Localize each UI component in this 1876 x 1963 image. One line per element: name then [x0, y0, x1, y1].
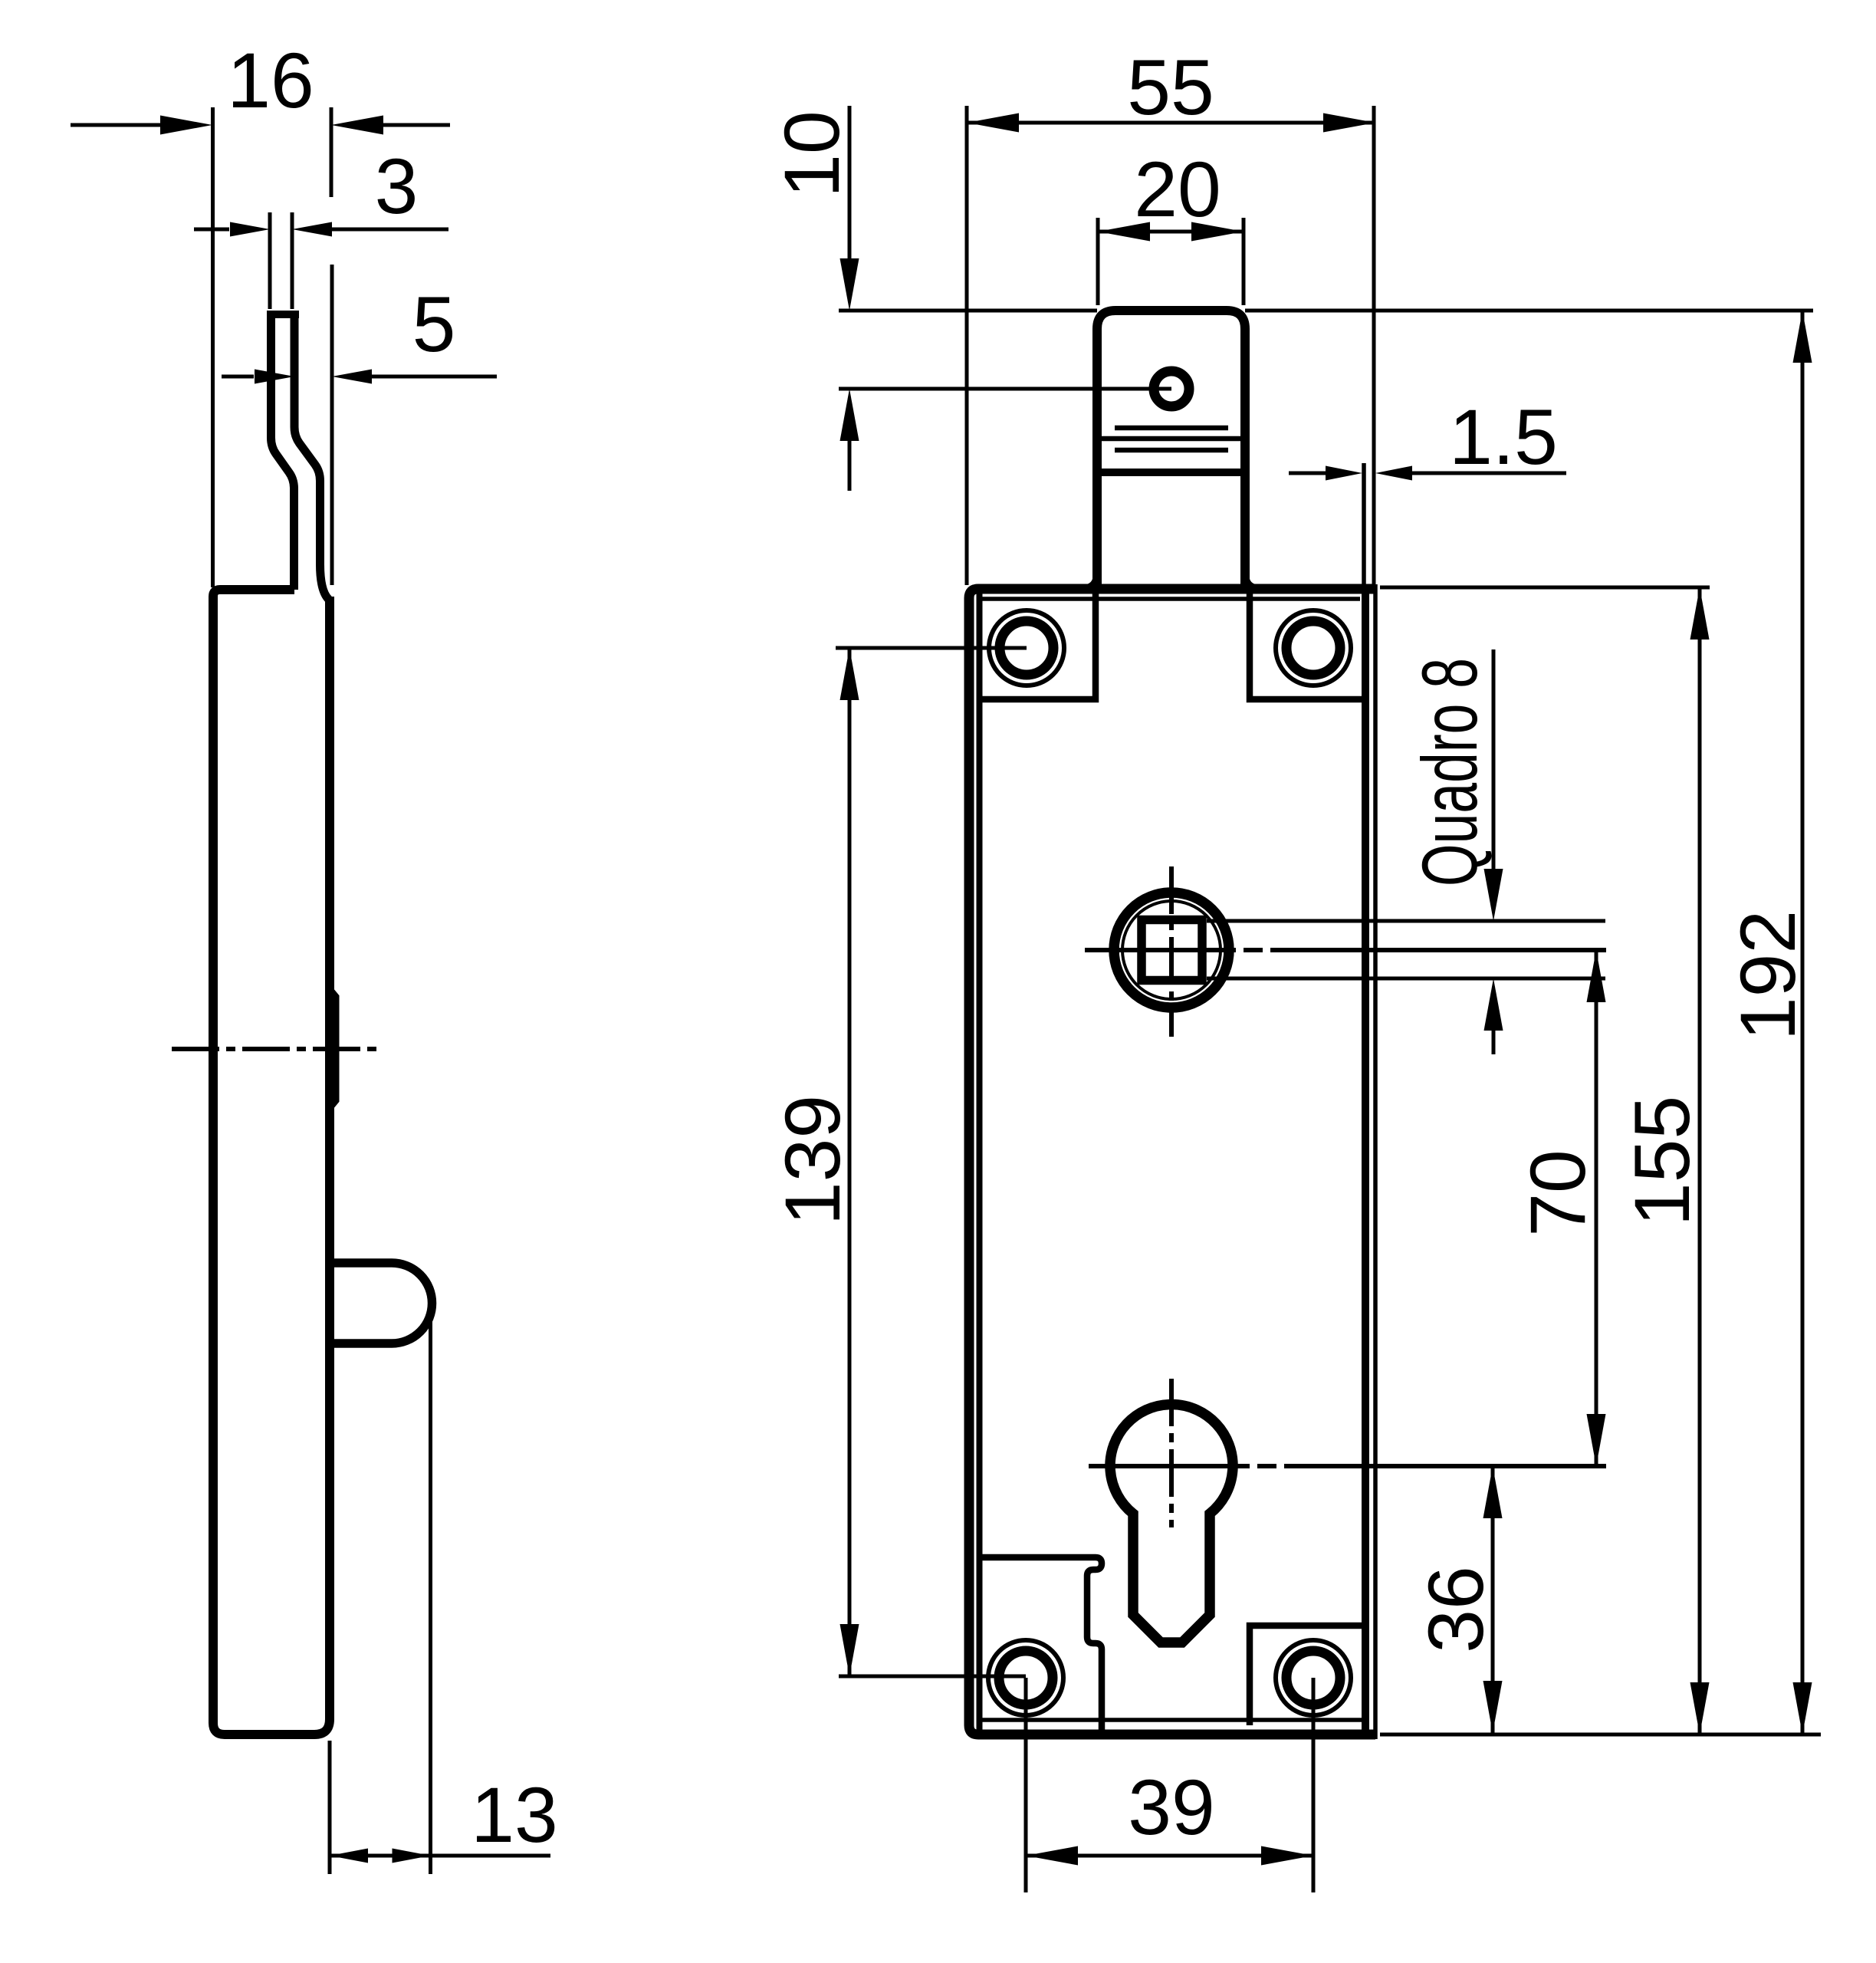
locking pin (side view)	[330, 1263, 432, 1343]
bolt tab outline	[1097, 311, 1245, 589]
side plate right edge raised step	[330, 990, 336, 1107]
bolt top reference line left segment	[839, 309, 1097, 313]
bottom left screw pocket with latch notch	[979, 1557, 1102, 1730]
dimension 55 line with arrows	[967, 113, 1375, 133]
cylinder vertical centre line	[1169, 1379, 1174, 1527]
dimension 55 extension line right	[1372, 106, 1376, 585]
dimension 16 line right segment with arrow	[331, 116, 450, 135]
bent tongue right edge (side view)	[294, 312, 330, 601]
dimension 13 line with arrows	[330, 1849, 550, 1863]
svg-text:39: 39	[1128, 1764, 1214, 1851]
bent tongue left edge (side view)	[271, 312, 294, 590]
dimension 155 line with arrows	[1690, 587, 1710, 1734]
dimension 10 upper line with arrow	[840, 106, 859, 311]
svg-text:55: 55	[1127, 44, 1214, 131]
dimension 39 extension lines	[1026, 1678, 1313, 1892]
dimension 70 line with arrows	[1587, 950, 1606, 1466]
spindle square hole (Quadro 8)	[1142, 920, 1202, 981]
dimension 16 extension line left / plate left face extension	[211, 107, 215, 587]
dimension 13 extension line left (plate face)	[328, 1741, 332, 1874]
dimension 192 line with arrows	[1793, 311, 1812, 1734]
spindle vertical centre line	[1169, 866, 1174, 1037]
spindle horizontal centre line	[1085, 948, 1606, 952]
bolt tab fold line	[1097, 469, 1245, 476]
bolt tab score line 2	[1097, 436, 1245, 442]
dimension 16 line left segment with arrow	[71, 116, 212, 135]
top right screw pocket	[1250, 592, 1365, 699]
dimension 139 line with arrows	[840, 648, 859, 1676]
lock body right outer edge	[1373, 584, 1378, 1739]
bolt top reference line right segment	[1245, 309, 1813, 313]
svg-text:13: 13	[471, 1771, 557, 1859]
bolt tab hole	[1154, 371, 1189, 406]
cylinder horizontal centre line	[1089, 1464, 1606, 1468]
svg-text:Quadro 8: Quadro 8	[1406, 658, 1493, 886]
spindle hub inner circle	[1122, 901, 1221, 999]
dimension 5 line left segment with arrow	[222, 370, 294, 384]
dimension 39 line with arrows	[1026, 1846, 1313, 1866]
top left screw hole	[989, 610, 1064, 686]
dimension 5 line right segment with arrow	[332, 370, 497, 384]
svg-text:139: 139	[769, 1095, 856, 1225]
lock body outline (left, top, bottom)	[969, 589, 1375, 1734]
square top edge extension line	[1207, 919, 1605, 923]
top left screw pocket	[979, 592, 1096, 699]
svg-text:192: 192	[1724, 910, 1812, 1041]
square bottom edge extension line	[1207, 977, 1605, 981]
svg-text:20: 20	[1134, 146, 1221, 233]
lock body inner line top	[979, 597, 1360, 601]
side plate centre line	[172, 1047, 377, 1051]
svg-text:36: 36	[1412, 1566, 1500, 1652]
dimension 16 extension line right	[330, 107, 333, 197]
dimension 20 line with arrows	[1098, 222, 1244, 242]
dimension 20 extension lines	[1098, 218, 1244, 305]
lock body right inner fold line	[1362, 589, 1369, 1734]
svg-text:70: 70	[1514, 1149, 1602, 1236]
dimension 139 reference line to bottom screw centre	[839, 1675, 1026, 1679]
top right screw hole	[1276, 610, 1351, 686]
bolt hole centre reference line	[839, 387, 1171, 391]
side plate outline	[213, 590, 330, 1734]
dimension 1.5 left arrow	[1289, 466, 1362, 481]
dimension 139 reference line to top screw centre	[836, 646, 1027, 650]
dimension Quadro 8 lower line with arrow	[1484, 978, 1503, 1054]
svg-text:3: 3	[375, 143, 419, 230]
bolt tab score line 1	[1115, 426, 1228, 431]
body bottom extension line right	[1380, 1733, 1821, 1737]
bolt tab base fillet right	[1245, 574, 1260, 589]
dimension 3 line left segment with arrow	[194, 222, 270, 237]
bolt tab score line 3	[1115, 448, 1228, 453]
dimension 36 line with arrows	[1483, 1466, 1503, 1733]
dimension 55 extension line left	[965, 106, 969, 585]
bottom right screw hole	[1276, 1640, 1351, 1715]
spindle hub outer circle	[1114, 893, 1229, 1008]
dimension 3 extension lines	[270, 212, 292, 309]
dimension 1.5 extension of inner fold line	[1362, 463, 1366, 585]
svg-text:5: 5	[412, 281, 456, 368]
dimension 1.5 right arrow and line	[1375, 466, 1566, 481]
dimension 13 extension line right (pin tip)	[429, 1304, 432, 1874]
svg-text:10: 10	[768, 110, 856, 197]
bent tongue top cap (side view)	[267, 311, 299, 318]
euro profile cylinder hole	[1110, 1405, 1233, 1642]
bottom left screw hole	[988, 1640, 1063, 1715]
body top extension line right	[1380, 586, 1710, 590]
dimension 10 lower line with arrow	[840, 389, 859, 491]
svg-text:155: 155	[1618, 1096, 1706, 1226]
bottom right screw pocket	[1250, 1626, 1365, 1725]
svg-text:1.5: 1.5	[1449, 393, 1558, 481]
dimension Quadro 8 upper line with arrow	[1484, 649, 1503, 921]
svg-text:16: 16	[227, 37, 314, 124]
dimension 5 extension line / plate right face reference	[330, 265, 334, 585]
lock body inner line bottom	[979, 1718, 1365, 1722]
bolt tab base fillet left	[1083, 574, 1097, 589]
lock body inner line left	[977, 594, 983, 1730]
dimension 3 line right segment with arrow	[292, 222, 448, 237]
